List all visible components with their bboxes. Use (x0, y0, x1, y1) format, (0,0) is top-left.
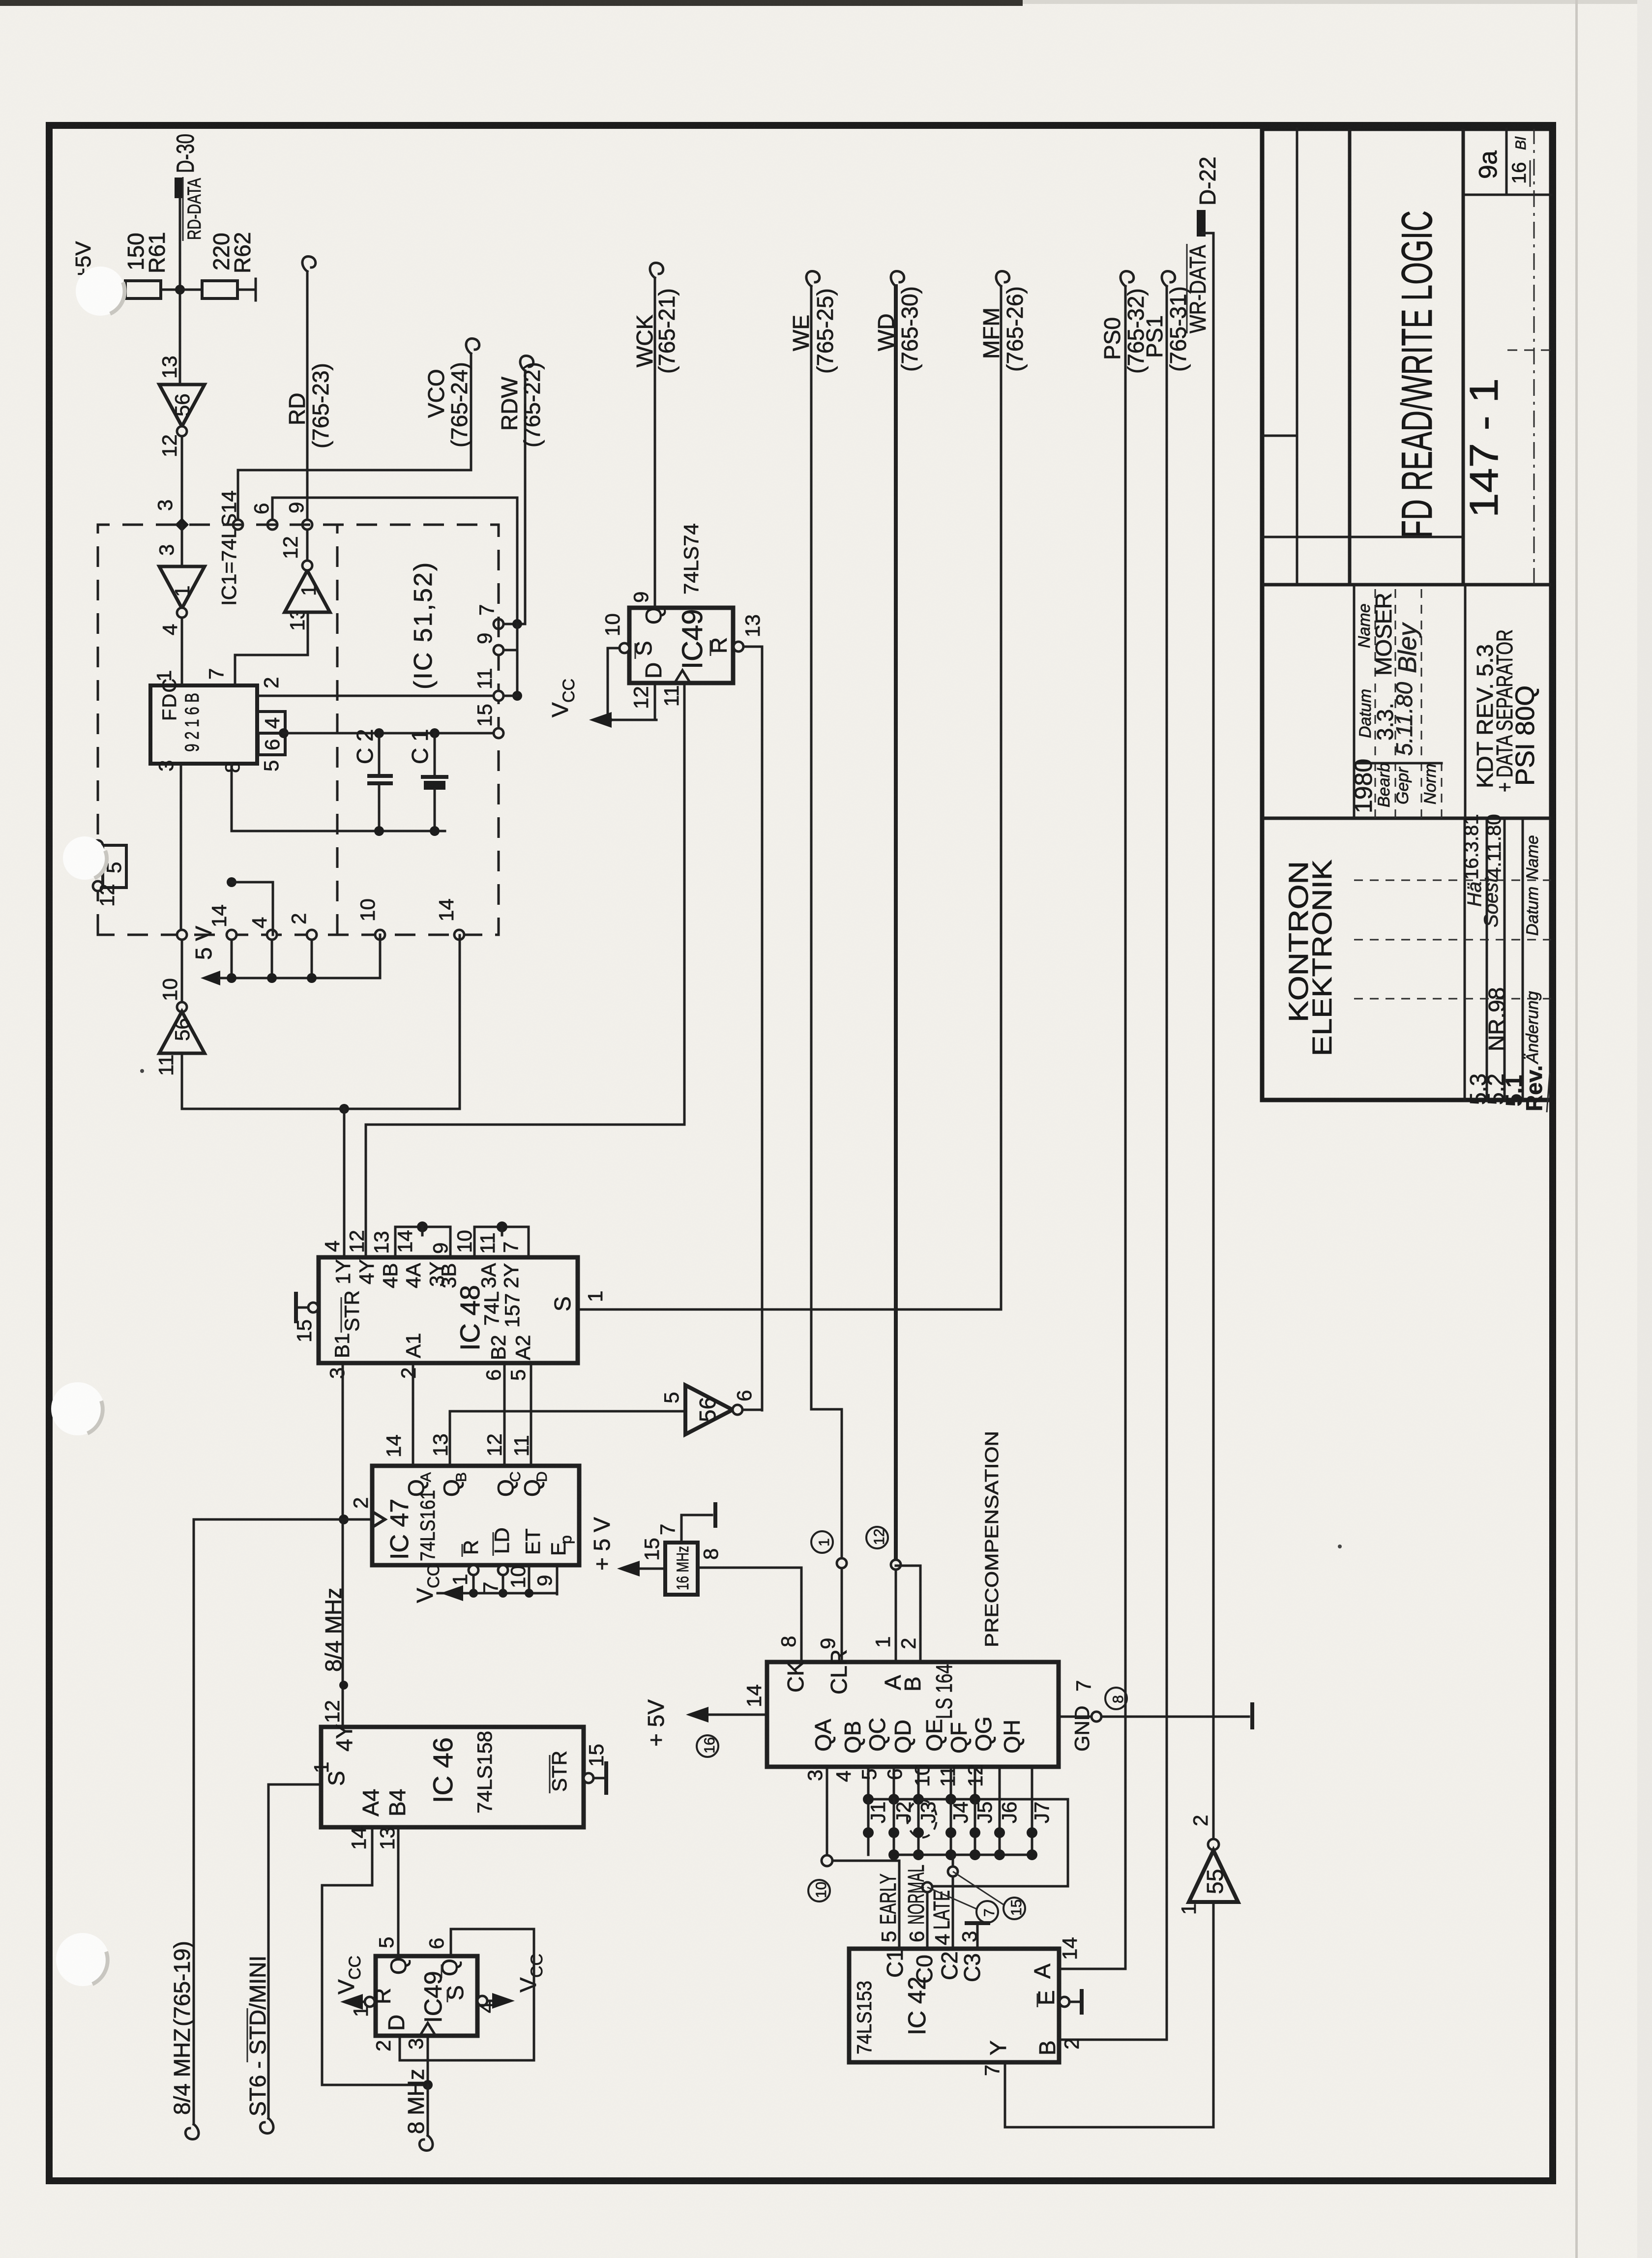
IC48 STR strobe tie (308, 1303, 318, 1312)
node D-30 connector stub (175, 178, 183, 198)
IC46 S pin to ST6 connector (268, 1784, 321, 2118)
IC49b R-bar to Vcc (365, 1997, 375, 2007)
wire RD-DATA to inverter 56 (179, 198, 181, 385)
NORMAL line from bus A to IC42 C0 (927, 1882, 1068, 1949)
wire PS0 (765-32) to IC42 pin14 (1059, 286, 1125, 1969)
node 4 circle module bottom + VCO drop (233, 520, 243, 530)
IC49 S-bar bubble and VCC tie (619, 643, 629, 653)
line A: IC48 1Y feed (182, 935, 460, 1109)
wire inverter 56 input from line A (181, 1053, 183, 1109)
wire inverter 56 out to node 3 (181, 436, 183, 525)
nodes 9 and 11 on module bottom edge (494, 645, 503, 655)
jumper bus C to LATE (894, 1854, 1035, 1856)
title block outer (1262, 129, 1551, 1100)
capacitor C1 (polarized) (430, 728, 440, 738)
node 6 circle on module boundary (267, 520, 277, 530)
wire junction to R62 (180, 289, 256, 291)
resistor R61 150 (125, 281, 161, 298)
wire 8/4MHz junction to IC47 clock (339, 1515, 349, 1524)
IC47 Vcc rail (473, 1565, 557, 1594)
FDC pin 7 wire to inverter 1(13/12) (235, 612, 308, 685)
long wire R-bar to inverter 56(6) (761, 647, 764, 1410)
pin8 branch to module pin 4 (227, 877, 236, 887)
wire inverter 1 out to FDC pin 1 (181, 618, 183, 685)
8/4MHZ (765-19) connector line (193, 1519, 195, 2124)
node WR-DATA connector stub D-22 (1197, 210, 1206, 237)
IC49b S-bar to Vcc (477, 1996, 487, 2006)
wire WR-DATA line to inverter 55 (1203, 233, 1213, 1839)
wires WD to A and B pins (895, 1570, 897, 1662)
IC47 clock wedge pin 2 (372, 1512, 385, 1527)
node 3 junction on module boundary (175, 518, 189, 532)
IC47 QB wire to inverter 56(5) (450, 1411, 685, 1466)
wire B2 to IC47 QC (503, 1363, 506, 1466)
section dividers (1262, 583, 1551, 587)
node 15 circle (494, 728, 503, 738)
wire node7 stub to RDW line (503, 623, 525, 625)
+5V to 16MHz pin 15 (637, 1568, 665, 1570)
jumper link pins 5/12 on module top edge (93, 840, 103, 850)
node 7 circle on module bottom boundary (494, 619, 503, 629)
IC48 pin 4 stub (343, 1109, 346, 1257)
wire RDW (765-22) (524, 371, 527, 624)
jumpers J1-J7 (868, 1799, 1032, 1855)
IC49b Q-bar feedback to D (400, 1929, 534, 2060)
module left-edge circles (pins 3,14,4,2,10,14) (177, 930, 187, 940)
wire RDW to node 6 (272, 498, 517, 673)
jumper bus A (868, 1799, 1068, 1886)
wire A2 to IC47 QD (530, 1363, 532, 1466)
wire A1 to IC47 QA (412, 1363, 414, 1466)
16MHz pin7 ground (681, 1515, 712, 1543)
IC49 D pin 12 to VCC (607, 683, 655, 720)
middle section (1353, 587, 1356, 818)
IC42 C3 ground tie (976, 1923, 979, 1949)
inverter 55 output bubble (1208, 1839, 1219, 1850)
resistor R62 220 (202, 281, 237, 298)
scanner edge artifacts (0, 0, 1023, 6)
wire VCO to node 4 (238, 354, 471, 520)
node test point 1 circle on CLR wire (837, 1558, 847, 1568)
FDC pins 4/6 bracket boxes (258, 712, 285, 733)
line B: IC48 4Y to IC49 clock (366, 683, 684, 1257)
wire node 9b to pin2 line (503, 650, 517, 696)
IC49b clock wedge (420, 2023, 436, 2036)
IC49 R-bar bubble pin 13 (734, 642, 743, 652)
LATE line to IC42 C2 (952, 1855, 954, 1949)
wire PS1 (765-31) to IC42 pin2 (1059, 286, 1167, 2040)
wire B1 to 8/4MHz node (342, 1363, 344, 1519)
node junction at R61/R62/RD-DATA (175, 285, 185, 295)
node 9 circle on module boundary (302, 520, 312, 530)
IC48 brackets pins 13-14 and 10-11 (395, 1227, 450, 1257)
top section rows (1296, 129, 1298, 585)
IC46 A4 pin14 wire around IC49 to 8MHz (322, 1827, 428, 2085)
punch holes (white, painted over drawing) (76, 267, 125, 316)
wire pins4/6 to C2/C1/node15 (284, 732, 499, 735)
wire WD (765-30) thick to LS164 A/B (894, 286, 898, 1565)
wire MFM (765-26) to IC48 S (1000, 286, 1003, 1309)
16MHz pin8 to LS164 CK (698, 1568, 801, 1662)
wire node 3 to inverter 1 (181, 525, 183, 566)
wire WE (765-25) to LS164 CLR (811, 286, 842, 1662)
test point leader lines 7 and 15 (927, 1887, 976, 1909)
IC49 clock wedge pin 11 (675, 670, 690, 683)
IC48 S pin wire to MFM (578, 1308, 1001, 1311)
wire RD (765-23) (306, 271, 309, 520)
IC49 Q pin 9 to WCK (654, 278, 656, 608)
IC46 B4 pin13 wire to IC49 Q5 (397, 1827, 400, 1956)
ground termination at R62 (255, 279, 257, 300)
wire IC42 Y to inverter 55 input (1005, 1902, 1213, 2127)
capacitor C2 (374, 728, 384, 738)
8MHz connector (427, 2085, 429, 2136)
